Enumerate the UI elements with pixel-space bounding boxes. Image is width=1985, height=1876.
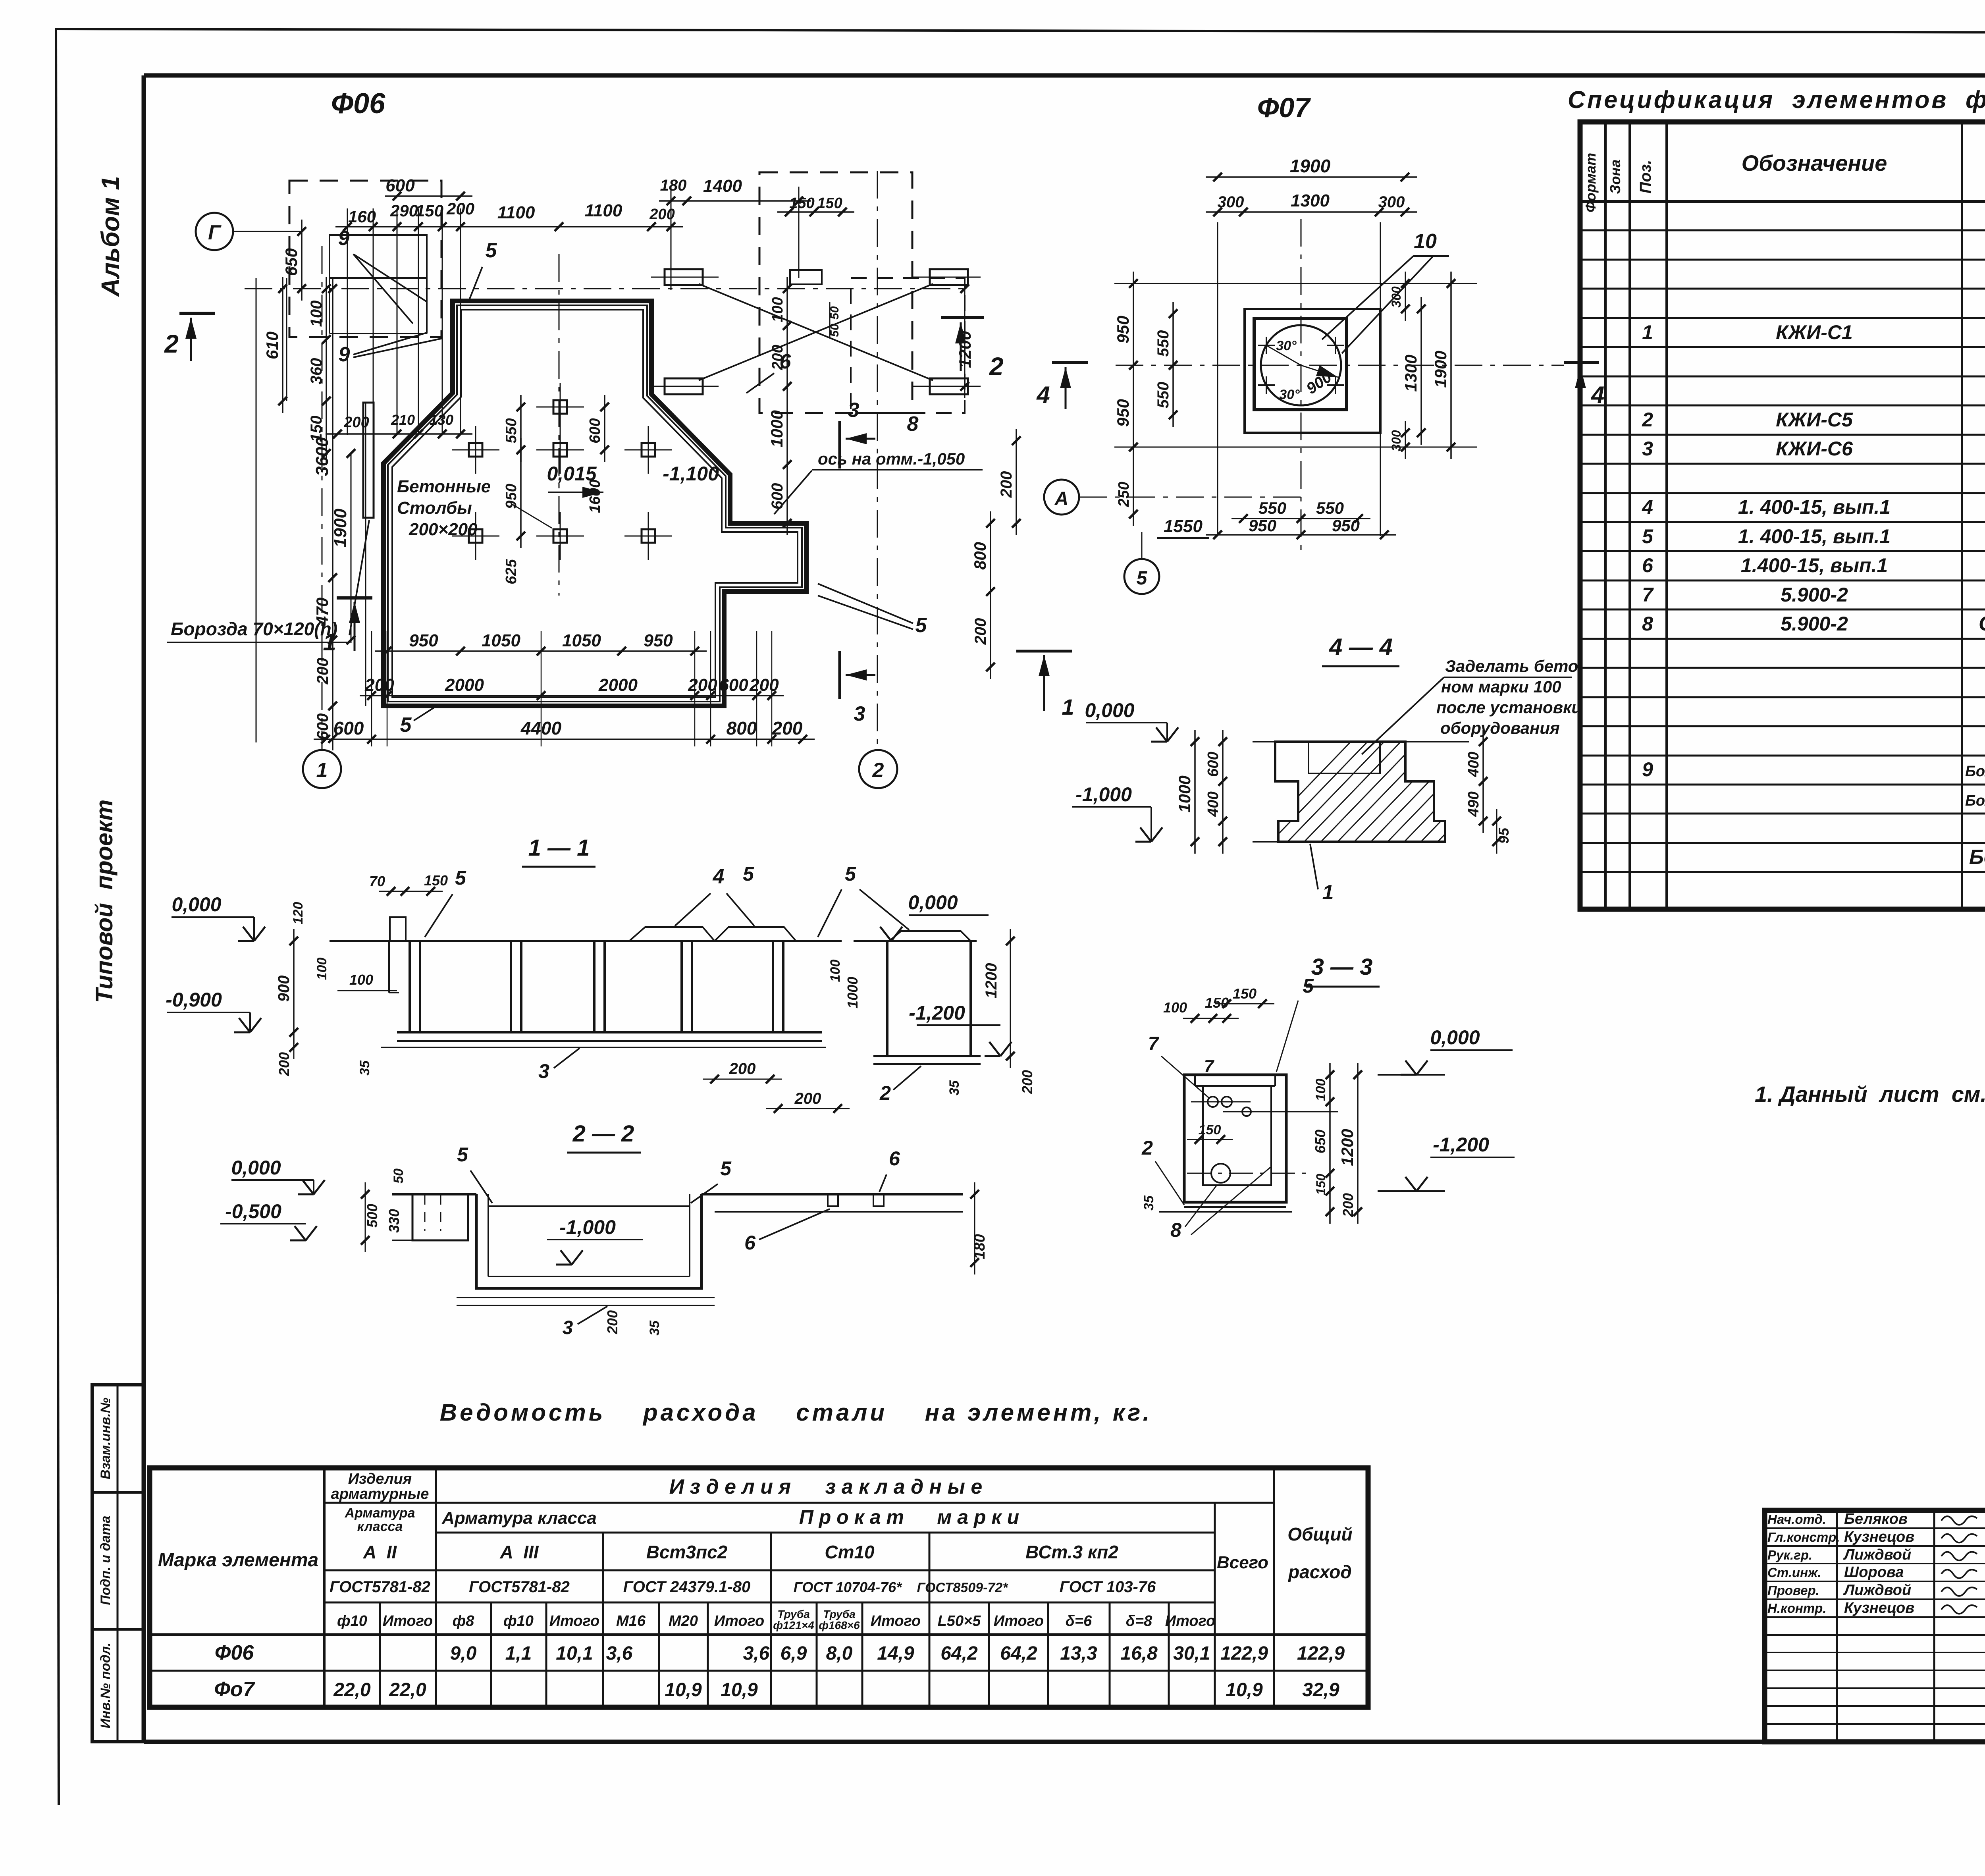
svg-text:100: 100: [769, 297, 786, 322]
svg-text:5: 5: [486, 239, 497, 262]
note text: [1755, 1082, 1985, 1107]
svg-text:8: 8: [1642, 613, 1653, 635]
svg-text:Кузнецов: Кузнецов: [1844, 1600, 1914, 1616]
svg-text:5: 5: [1642, 525, 1654, 548]
svg-text:ф121×4: ф121×4: [773, 1619, 814, 1631]
svg-text:9,0: 9,0: [450, 1643, 477, 1664]
svg-text:Г: Г: [208, 221, 222, 244]
svg-text:1400: 1400: [703, 176, 742, 196]
plan F06 labels and leaders: [167, 227, 983, 737]
svg-text:64,2: 64,2: [1000, 1643, 1037, 1664]
svg-text:4: 4: [1642, 496, 1653, 518]
plan F07 title: [1257, 92, 1311, 123]
svg-text:180: 180: [660, 177, 687, 194]
svg-text:200: 200: [1340, 1193, 1356, 1217]
svg-text:1550: 1550: [1164, 517, 1203, 536]
svg-text:500: 500: [364, 1204, 380, 1228]
svg-text:1,1: 1,1: [505, 1643, 532, 1664]
axis bubble Г: [196, 213, 302, 250]
svg-text:А: А: [1054, 488, 1069, 509]
svg-text:0,000: 0,000: [908, 891, 958, 914]
svg-text:70: 70: [369, 873, 385, 889]
svg-text:200: 200: [343, 414, 369, 431]
svg-text:Ст10: Ст10: [825, 1542, 875, 1562]
svg-text:5: 5: [1137, 568, 1148, 589]
plan F07 section marks 4: [1036, 362, 1604, 409]
svg-text:И з д е л и я з а к л а д: И з д е л и я з а к л а д н ы е: [669, 1475, 983, 1498]
svg-text:Итого: Итого: [1165, 1613, 1215, 1629]
svg-text:Инв.№ подл.: Инв.№ подл.: [98, 1643, 113, 1729]
svg-text:после установки: после установки: [1436, 698, 1582, 717]
svg-text:1300: 1300: [1401, 355, 1420, 391]
svg-text:1: 1: [323, 629, 336, 656]
plan F06 outline: [384, 301, 806, 706]
svg-text:400: 400: [1205, 791, 1222, 817]
plan F06 small detail rect top-left: [330, 235, 427, 334]
section 3-3 title: [1306, 954, 1380, 987]
svg-text:Спецификация элементов фунда: Спецификация элементов фундаментов под о…: [1568, 86, 1985, 113]
plan F06 left dim chains: [256, 220, 355, 750]
svg-text:2: 2: [164, 330, 179, 358]
section 4-4 note: [1362, 657, 1582, 754]
svg-text:1: 1: [1322, 881, 1334, 904]
svg-text:δ=6: δ=6: [1066, 1613, 1092, 1629]
svg-text:Итого: Итого: [871, 1613, 921, 1629]
section 3-3 dims: [1141, 975, 1362, 1241]
svg-text:7: 7: [1148, 1033, 1160, 1055]
svg-text:2000: 2000: [445, 675, 484, 695]
svg-text:200: 200: [972, 618, 989, 645]
svg-text:класса: класса: [357, 1519, 403, 1534]
svg-text:Провер.: Провер.: [1767, 1583, 1819, 1598]
svg-text:150: 150: [1199, 1122, 1221, 1138]
svg-text:600: 600: [1205, 752, 1222, 777]
svg-text:120: 120: [291, 902, 306, 925]
svg-text:Труба: Труба: [823, 1608, 856, 1620]
svg-text:Рук.гр.: Рук.гр.: [1767, 1548, 1812, 1562]
svg-text:расход: расход: [1287, 1562, 1352, 1582]
svg-text:200: 200: [604, 1310, 621, 1334]
svg-text:950: 950: [1249, 516, 1276, 535]
svg-text:650: 650: [1312, 1130, 1328, 1153]
plan F07 bottom dims: [1157, 499, 1396, 539]
section 2-2 body: [392, 1194, 963, 1305]
plan F06 X-braced plates: [651, 269, 981, 394]
plan F06 title: [331, 88, 385, 120]
svg-text:5: 5: [915, 614, 927, 637]
svg-text:КЖИ-С1: КЖИ-С1: [1776, 321, 1853, 343]
svg-text:400: 400: [1465, 752, 1482, 777]
svg-text:Альбом 1: Альбом 1: [96, 176, 125, 297]
section 1-1 dims and labels: [275, 863, 1035, 1113]
axis bubble 1: [303, 750, 341, 788]
spec table headers: [1582, 134, 1985, 212]
section marks on plan F06: [164, 313, 1074, 725]
svg-text:600: 600: [719, 675, 748, 695]
svg-text:Ст.инж.: Ст.инж.: [1767, 1565, 1821, 1580]
svg-text:L50×5: L50×5: [938, 1613, 981, 1629]
svg-text:2000: 2000: [598, 675, 638, 695]
svg-text:3: 3: [848, 399, 860, 422]
svg-text:1 — 1: 1 — 1: [528, 835, 590, 861]
svg-text:550: 550: [1258, 499, 1286, 517]
svg-text:Формат: Формат: [1582, 153, 1599, 212]
svg-text:Бетонные: Бетонные: [397, 477, 491, 496]
svg-text:6: 6: [889, 1147, 900, 1170]
svg-text:150: 150: [424, 872, 448, 889]
svg-text:4 — 4: 4 — 4: [1329, 634, 1393, 660]
svg-text:360: 360: [308, 358, 325, 385]
svg-text:160: 160: [348, 207, 376, 226]
svg-text:16,8: 16,8: [1120, 1643, 1158, 1664]
svg-text:ф10: ф10: [503, 1613, 534, 1629]
svg-text:δ=8: δ=8: [1126, 1613, 1152, 1629]
svg-text:Ф06: Ф06: [331, 88, 385, 120]
svg-text:Общий: Общий: [1287, 1524, 1352, 1544]
svg-text:300: 300: [1378, 193, 1405, 211]
svg-text:М20: М20: [669, 1613, 698, 1629]
svg-text:1000: 1000: [767, 410, 786, 447]
svg-text:2: 2: [1141, 1137, 1153, 1159]
svg-text:ГОСТ5781-82: ГОСТ5781-82: [330, 1578, 430, 1596]
svg-text:610: 610: [263, 332, 281, 359]
svg-text:8: 8: [1170, 1219, 1181, 1241]
margin label Альбом 1: [96, 176, 125, 297]
svg-text:50: 50: [391, 1168, 406, 1184]
plan F06 right dim chain: [767, 277, 1021, 679]
svg-text:2: 2: [872, 759, 884, 782]
svg-text:Заделать бето: Заделать бето: [1445, 657, 1578, 675]
svg-text:-1,200: -1,200: [1433, 1134, 1489, 1156]
plan F07 label 10: [1322, 230, 1449, 353]
svg-text:200: 200: [1019, 1070, 1035, 1094]
svg-text:1. 400-15, вып.1: 1. 400-15, вып.1: [1738, 525, 1891, 548]
svg-text:32,9: 32,9: [1302, 1679, 1339, 1701]
svg-text:64,2: 64,2: [940, 1643, 978, 1664]
spec table rows: [1642, 262, 1985, 869]
svg-text:8: 8: [907, 413, 919, 436]
svg-text:Лиждвой: Лиждвой: [1843, 1582, 1911, 1598]
svg-text:Взам.инв.№: Взам.инв.№: [98, 1398, 113, 1479]
section 3-3 body: [1159, 1075, 1338, 1212]
svg-text:ф8: ф8: [453, 1613, 475, 1629]
svg-text:600: 600: [333, 718, 364, 738]
section 4-4 body: [1247, 735, 1575, 850]
axis bubble 2: [859, 750, 897, 788]
svg-text:100: 100: [828, 960, 843, 982]
svg-text:Ведомость расхода стали: Ведомость расхода стали на элемент, кг.: [440, 1399, 1152, 1426]
section 4-4 elevations: [1072, 699, 1178, 842]
svg-text:А II: А II: [363, 1542, 397, 1562]
svg-text:950: 950: [409, 631, 438, 650]
svg-text:100: 100: [1313, 1079, 1328, 1101]
svg-text:5: 5: [455, 867, 466, 889]
svg-text:6: 6: [744, 1232, 756, 1254]
svg-text:3: 3: [538, 1060, 549, 1082]
svg-text:5: 5: [400, 713, 412, 737]
svg-text:Подп. и дата: Подп. и дата: [98, 1515, 113, 1605]
svg-text:35: 35: [357, 1060, 372, 1076]
svg-text:200×200: 200×200: [409, 520, 478, 539]
svg-text:650: 650: [282, 248, 301, 276]
svg-text:Столбы: Столбы: [397, 498, 472, 518]
plan F06 top dim chain: [326, 176, 854, 438]
svg-text:6: 6: [780, 350, 792, 373]
svg-text:Н.контр.: Н.контр.: [1767, 1601, 1826, 1616]
svg-text:ГОСТ 10704-76*: ГОСТ 10704-76*: [794, 1579, 902, 1595]
svg-text:1300: 1300: [1291, 191, 1330, 210]
svg-text:0,000: 0,000: [1430, 1026, 1480, 1049]
svg-text:Сальник Ду 100, ℓ=200: Сальник Ду 100, ℓ=200: [1979, 612, 1985, 635]
svg-text:10,9: 10,9: [721, 1679, 758, 1701]
svg-text:оборудования: оборудования: [1440, 719, 1560, 737]
section 2-2 elevations and labels: [220, 1143, 988, 1338]
svg-text:35: 35: [1141, 1195, 1156, 1211]
svg-text:200: 200: [688, 675, 717, 695]
svg-text:1: 1: [1062, 694, 1074, 719]
svg-text:Поз.: Поз.: [1637, 160, 1654, 194]
svg-text:550: 550: [1316, 499, 1344, 517]
svg-text:-1,000: -1,000: [559, 1216, 616, 1238]
plan F06 axis lines: [245, 171, 965, 750]
svg-text:200: 200: [794, 1090, 821, 1107]
plan F07 circle: [1258, 325, 1344, 405]
svg-text:3: 3: [563, 1317, 573, 1338]
svg-text:200: 200: [998, 471, 1015, 498]
svg-text:122,9: 122,9: [1297, 1643, 1345, 1664]
svg-text:10,9: 10,9: [665, 1679, 702, 1701]
plan F07 right dims: [1389, 272, 1455, 459]
svg-text:Шорова: Шорова: [1844, 1564, 1904, 1581]
svg-text:Гл.констр.: Гл.констр.: [1767, 1530, 1840, 1544]
svg-text:ВСт.3 кп2: ВСт.3 кп2: [1025, 1542, 1118, 1562]
svg-text:800: 800: [727, 718, 757, 738]
svg-text:арматурные: арматурные: [331, 1486, 429, 1502]
svg-text:30°: 30°: [1276, 338, 1297, 353]
svg-text:600: 600: [385, 176, 415, 195]
svg-text:550: 550: [1154, 330, 1172, 357]
svg-text:950: 950: [1114, 399, 1132, 427]
svg-text:3: 3: [854, 702, 865, 725]
svg-text:Фо7: Фо7: [214, 1678, 255, 1701]
svg-text:Труба: Труба: [777, 1608, 810, 1620]
paper edge left: [56, 28, 59, 1805]
svg-text:600: 600: [769, 483, 786, 510]
svg-text:1050: 1050: [482, 631, 520, 650]
svg-text:Изделия: Изделия: [348, 1471, 412, 1487]
svg-text:Кузнецов: Кузнецов: [1844, 1529, 1914, 1545]
svg-text:30°: 30°: [1279, 387, 1300, 402]
svg-text:210: 210: [391, 412, 415, 428]
svg-text:150: 150: [1205, 995, 1229, 1011]
svg-text:300: 300: [1389, 286, 1403, 308]
section 4-4 title: [1322, 634, 1399, 666]
svg-text:1: 1: [1642, 321, 1653, 343]
plan F06 left channel (borozda): [363, 403, 374, 706]
svg-text:35: 35: [947, 1080, 962, 1095]
svg-text:Ф07: Ф07: [1257, 92, 1311, 123]
svg-text:Ф06: Ф06: [215, 1641, 254, 1664]
svg-text:150: 150: [1233, 985, 1257, 1002]
svg-text:0,015: 0,015: [547, 463, 597, 485]
svg-text:1900: 1900: [331, 509, 350, 548]
spec table title: [1568, 86, 1985, 113]
svg-text:Борозда 70×120(h): Борозда 70×120(h): [171, 619, 337, 639]
svg-text:КЖИ-С6: КЖИ-С6: [1776, 438, 1853, 460]
svg-text:300: 300: [1218, 193, 1244, 211]
title block left entries: [1767, 1511, 1985, 1616]
svg-text:ГОСТ5781-82: ГОСТ5781-82: [469, 1578, 570, 1596]
svg-text:Бетон марки 150: Бетон марки 150: [1969, 846, 1985, 869]
svg-text:ном марки 100: ном марки 100: [1441, 677, 1561, 696]
svg-text:9: 9: [338, 227, 350, 250]
svg-text:950: 950: [1114, 316, 1132, 343]
svg-text:5: 5: [845, 863, 856, 885]
svg-text:4: 4: [1591, 382, 1604, 408]
svg-text:300: 300: [1389, 430, 1403, 451]
svg-text:0,000: 0,000: [231, 1157, 281, 1179]
svg-text:150: 150: [789, 195, 814, 212]
svg-text:130: 130: [430, 412, 453, 428]
svg-text:5: 5: [720, 1157, 732, 1180]
svg-text:950: 950: [503, 484, 520, 509]
svg-text:Зона: Зона: [1607, 160, 1623, 194]
plan F06 inner dims: [503, 395, 719, 584]
steel table headers: [158, 1471, 1353, 1631]
svg-text:-1,200: -1,200: [909, 1002, 965, 1024]
svg-text:330: 330: [386, 1209, 402, 1233]
svg-text:А III: А III: [499, 1542, 539, 1562]
svg-text:490: 490: [1465, 791, 1482, 817]
steel table grid: [150, 1468, 1368, 1707]
svg-text:200: 200: [364, 675, 394, 695]
svg-text:200: 200: [276, 1052, 292, 1076]
svg-text:550: 550: [1154, 382, 1172, 409]
svg-text:-1,100: -1,100: [663, 463, 719, 485]
svg-text:Типовой проект: Типовой проект: [91, 800, 118, 1003]
svg-text:800: 800: [971, 542, 989, 570]
svg-text:1200: 1200: [983, 963, 1000, 999]
svg-text:1900: 1900: [1431, 351, 1450, 388]
svg-text:Беляков: Беляков: [1844, 1511, 1908, 1527]
svg-text:5: 5: [1303, 975, 1314, 997]
svg-text:3,6: 3,6: [606, 1643, 633, 1664]
svg-text:13,3: 13,3: [1060, 1643, 1097, 1664]
svg-text:Марка элемента: Марка элемента: [158, 1550, 319, 1571]
margin stamp boxes: [92, 1385, 144, 1742]
svg-text:Всего: Всего: [1217, 1553, 1268, 1572]
svg-text:35: 35: [647, 1320, 662, 1336]
svg-text:Обозначение: Обозначение: [1742, 150, 1887, 175]
axis bubble A: [1044, 480, 1306, 515]
title block: [1765, 1510, 1985, 1742]
svg-text:ГОСТ 103-76: ГОСТ 103-76: [1060, 1578, 1156, 1596]
svg-text:3,6: 3,6: [743, 1643, 770, 1664]
svg-text:1. Данный лист см. совместн: 1. Данный лист см. совместно с листом 14…: [1755, 1082, 1985, 1107]
svg-text:150: 150: [1314, 1174, 1328, 1195]
svg-text:5.900-2: 5.900-2: [1781, 613, 1848, 635]
svg-text:950: 950: [644, 631, 673, 650]
svg-text:180: 180: [971, 1234, 988, 1259]
svg-text:10: 10: [1414, 230, 1437, 253]
svg-text:22,0: 22,0: [333, 1679, 371, 1701]
svg-text:5.900-2: 5.900-2: [1781, 584, 1848, 606]
svg-text:0,000: 0,000: [1085, 699, 1134, 721]
svg-text:2: 2: [989, 352, 1004, 381]
svg-text:Итого: Итого: [549, 1613, 599, 1629]
svg-text:200: 200: [729, 1060, 756, 1078]
svg-text:250: 250: [1116, 482, 1132, 507]
svg-text:-0,900: -0,900: [166, 989, 222, 1011]
section 3-3 elevations: [1378, 1026, 1515, 1191]
svg-text:Арматура: Арматура: [345, 1506, 415, 1521]
svg-text:8,0: 8,0: [826, 1643, 853, 1664]
paper edge top: [56, 29, 1985, 33]
svg-text:ГОСТ 24379.1-80: ГОСТ 24379.1-80: [623, 1578, 750, 1596]
svg-text:9: 9: [1642, 758, 1653, 781]
margin label Типовой проект: [91, 800, 118, 1003]
svg-text:КЖИ-С5: КЖИ-С5: [1776, 409, 1853, 431]
section 2-2 title: [567, 1121, 641, 1153]
svg-text:1050: 1050: [562, 631, 601, 650]
svg-text:900: 900: [275, 976, 293, 1002]
svg-text:550: 550: [503, 418, 520, 443]
svg-text:3 — 3: 3 — 3: [1311, 954, 1373, 980]
plan F07 squares: [1245, 309, 1380, 433]
svg-text:200: 200: [314, 658, 331, 685]
section 4-4 dims: [1175, 730, 1512, 904]
svg-text:122,9: 122,9: [1220, 1643, 1268, 1664]
svg-text:10,1: 10,1: [556, 1643, 593, 1664]
section 1-1 body: [330, 917, 981, 1064]
svg-text:290: 290: [390, 201, 418, 220]
svg-text:1000: 1000: [844, 977, 861, 1008]
svg-text:5: 5: [457, 1143, 468, 1166]
svg-text:1. 400-15, вып.1: 1. 400-15, вып.1: [1738, 496, 1891, 518]
steel table data: [214, 1641, 1345, 1701]
svg-text:2: 2: [879, 1082, 891, 1104]
svg-text:150: 150: [817, 195, 842, 212]
section 1-1 elevations: [166, 891, 1012, 1056]
svg-text:14,9: 14,9: [877, 1643, 914, 1664]
svg-text:7: 7: [1204, 1057, 1215, 1076]
plan F07 axes: [1114, 219, 1564, 556]
svg-text:Арматура класса: Арматура класса: [441, 1508, 597, 1528]
svg-text:ф168×6: ф168×6: [819, 1619, 860, 1631]
svg-text:1000: 1000: [1175, 775, 1194, 812]
svg-text:100: 100: [308, 301, 325, 327]
svg-text:Лиждвой: Лиждвой: [1843, 1546, 1911, 1563]
svg-text:3: 3: [1642, 438, 1653, 460]
svg-text:1: 1: [316, 759, 328, 782]
svg-text:-0,500: -0,500: [225, 1200, 281, 1222]
svg-text:6: 6: [1642, 554, 1654, 576]
svg-text:6,9: 6,9: [781, 1643, 807, 1664]
svg-text:1200: 1200: [1338, 1129, 1357, 1166]
svg-text:950: 950: [1332, 516, 1360, 535]
svg-text:3600: 3600: [312, 437, 332, 476]
svg-text:0,000: 0,000: [172, 893, 221, 916]
svg-text:4: 4: [713, 865, 725, 888]
svg-text:9: 9: [339, 343, 350, 366]
svg-text:10,9: 10,9: [1226, 1679, 1263, 1701]
svg-text:1900: 1900: [1290, 156, 1331, 176]
svg-text:2 — 2: 2 — 2: [572, 1121, 634, 1147]
section 1-1 title: [522, 835, 595, 867]
svg-text:625: 625: [503, 559, 520, 584]
svg-text:1100: 1100: [497, 203, 535, 222]
svg-text:100: 100: [314, 958, 330, 980]
